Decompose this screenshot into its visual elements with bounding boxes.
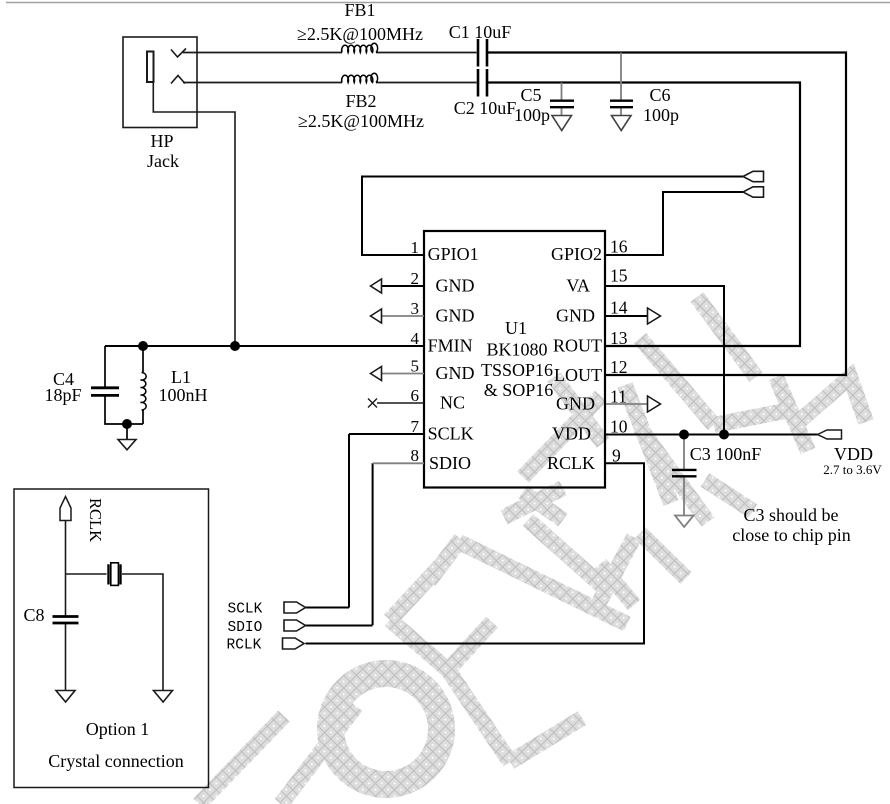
svg-text:100p: 100p	[514, 105, 550, 125]
svg-text:C2 10uF: C2 10uF	[454, 98, 517, 118]
svg-text:SCLK: SCLK	[428, 424, 474, 444]
svg-text:RCLK: RCLK	[86, 498, 105, 542]
svg-text:& SOP16: & SOP16	[484, 380, 554, 400]
svg-text:ROUT: ROUT	[553, 336, 602, 356]
svg-text:100nH: 100nH	[159, 385, 208, 405]
svg-text:VDD: VDD	[834, 444, 873, 464]
svg-text:U1: U1	[505, 318, 527, 338]
svg-text:GND: GND	[556, 394, 595, 414]
svg-text:≥2.5K@100MHz: ≥2.5K@100MHz	[297, 24, 423, 44]
svg-text:1: 1	[411, 238, 420, 257]
svg-text:≥2.5K@100MHz: ≥2.5K@100MHz	[298, 111, 424, 131]
svg-text:13: 13	[610, 328, 628, 348]
svg-text:RCLK: RCLK	[227, 638, 262, 654]
svg-text:GND: GND	[436, 276, 475, 296]
svg-text:C6: C6	[649, 85, 670, 105]
svg-text:14: 14	[610, 298, 628, 318]
svg-text:LOUT: LOUT	[554, 365, 602, 385]
svg-text:FMIN: FMIN	[428, 336, 473, 356]
svg-text:15: 15	[610, 266, 628, 286]
svg-text:Option 1: Option 1	[86, 719, 150, 739]
svg-text:close to chip pin: close to chip pin	[732, 525, 850, 545]
svg-text:12: 12	[610, 357, 628, 377]
svg-text:L1: L1	[171, 367, 191, 387]
svg-text:NC: NC	[440, 393, 465, 413]
svg-text:100p: 100p	[643, 105, 679, 125]
svg-text:11: 11	[610, 387, 627, 407]
svg-text:HP: HP	[150, 131, 173, 151]
svg-text:6: 6	[411, 386, 420, 405]
svg-text:10: 10	[610, 417, 628, 437]
svg-text:18pF: 18pF	[44, 385, 81, 405]
svg-text:7: 7	[411, 417, 420, 436]
svg-text:C8: C8	[23, 605, 44, 625]
svg-text:3: 3	[411, 299, 420, 318]
svg-text:Jack: Jack	[147, 151, 179, 171]
svg-text:16: 16	[610, 237, 628, 257]
svg-text:GPIO2: GPIO2	[551, 244, 602, 264]
svg-text:VDD: VDD	[552, 424, 591, 444]
svg-text:Crystal connection: Crystal connection	[48, 751, 183, 771]
svg-text:8: 8	[411, 446, 420, 465]
svg-text:BK1080: BK1080	[486, 340, 547, 360]
svg-text:TSSOP16: TSSOP16	[481, 360, 553, 380]
svg-text:FB1: FB1	[344, 0, 375, 20]
svg-text:VA: VA	[566, 276, 590, 296]
svg-text:FB2: FB2	[345, 91, 376, 111]
svg-text:GND: GND	[436, 306, 475, 326]
svg-text:C1 10uF: C1 10uF	[449, 22, 512, 42]
svg-text:GND: GND	[556, 306, 595, 326]
svg-text:SCLK: SCLK	[228, 602, 263, 618]
svg-text:5: 5	[411, 357, 420, 376]
svg-text:9: 9	[612, 446, 621, 466]
svg-text:2.7 to 3.6V: 2.7 to 3.6V	[823, 462, 882, 477]
svg-text:SDIO: SDIO	[429, 453, 471, 473]
svg-text:C3 should be: C3 should be	[743, 505, 838, 525]
svg-text:SDIO: SDIO	[228, 620, 263, 636]
svg-text:4: 4	[411, 329, 420, 348]
svg-text:C3 100nF: C3 100nF	[690, 444, 762, 464]
svg-text:C5: C5	[520, 85, 541, 105]
svg-text:GND: GND	[436, 363, 475, 383]
svg-text:2: 2	[411, 269, 420, 288]
svg-text:RCLK: RCLK	[547, 453, 595, 473]
svg-text:GPIO1: GPIO1	[428, 244, 479, 264]
